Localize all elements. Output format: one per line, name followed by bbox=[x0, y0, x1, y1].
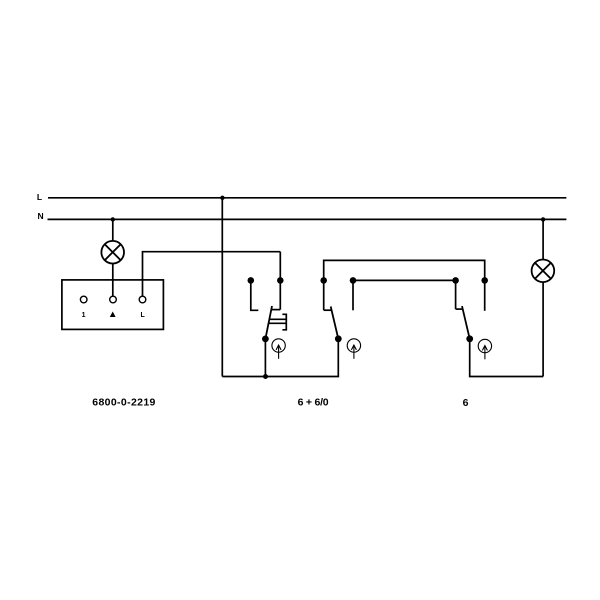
switch S3 (two-way, type 6) blade feed bbox=[455, 280, 457, 309]
indicator glow lamp of S1 bbox=[272, 339, 285, 359]
switch S3 blade bbox=[462, 306, 470, 339]
node S3 right terminal dot bbox=[481, 277, 488, 284]
wire from L junction down to bottom rail bbox=[221, 198, 223, 377]
switch S1 bracket line 2 bbox=[269, 322, 286, 324]
pin label arrow (triangle) bbox=[110, 312, 116, 318]
wire S1 pivot down to bottom rail bbox=[264, 339, 266, 377]
wire from box terminal L up and across to switch S1 terminal bbox=[143, 252, 281, 297]
switch S1 (series/two-way 6/0 mechanism) right feed wire bbox=[279, 252, 281, 310]
svg-text:1: 1 bbox=[82, 312, 86, 319]
svg-text:6 + 6/0: 6 + 6/0 bbox=[298, 397, 329, 409]
switch S1 pushbutton bracket top arm bbox=[282, 314, 286, 330]
node S1 bottom pivot dot bbox=[262, 336, 269, 343]
lamp E2 bbox=[532, 260, 555, 283]
timer/control unit box 6800-0-2219 bbox=[62, 280, 163, 330]
node S3 bottom pivot dot bbox=[466, 335, 473, 342]
switch S1 connector blade-to-terminal bbox=[272, 309, 281, 311]
node S3 left terminal dot bbox=[452, 277, 459, 284]
node S1 right terminal dot bbox=[277, 277, 284, 284]
svg-text:6: 6 bbox=[463, 397, 469, 409]
wire L line bbox=[48, 197, 566, 199]
indicator glow lamp of S2 bbox=[347, 339, 360, 359]
wire middle link S2 terminal to S3 blade bbox=[353, 279, 456, 281]
wire S3 pivot down and right to lamp E2 bbox=[470, 339, 543, 377]
svg-text:6800-0-2219: 6800-0-2219 bbox=[92, 397, 155, 409]
indicator glow lamp of S3 bbox=[478, 339, 491, 359]
svg-text:L: L bbox=[37, 192, 42, 202]
wire lamp E2 vertical from N to bottom rail bbox=[542, 219, 544, 376]
node S2 bottom pivot dot bbox=[335, 335, 342, 342]
wire bottom rail left circuit bbox=[222, 339, 338, 377]
switch S2 blade bbox=[331, 307, 339, 339]
terminal arrow of box bbox=[110, 296, 117, 303]
wire top link S2 blade to S3 terminal bbox=[324, 260, 485, 280]
switch S1 bracket line 1 bbox=[270, 318, 286, 320]
svg-text:L: L bbox=[140, 312, 145, 319]
lamp E1 bbox=[101, 241, 124, 264]
node junction dot on N line right bbox=[541, 217, 545, 221]
wire from N junction down to lamp E1 and terminal (arrow) of timer box bbox=[112, 219, 114, 296]
junction dot on bottom rail bbox=[263, 374, 268, 379]
switch S1 blade bbox=[265, 306, 272, 339]
switch S3 connector bbox=[456, 308, 464, 310]
svg-text:N: N bbox=[38, 211, 44, 221]
switch S2 connector bbox=[324, 309, 332, 311]
switch S3 open contact stub bbox=[484, 280, 486, 310]
node S2 right terminal dot bbox=[350, 277, 357, 284]
terminal L of box bbox=[139, 296, 146, 303]
switch S2 open contact stub bbox=[352, 280, 354, 310]
node S1 left terminal dot bbox=[248, 277, 255, 284]
terminal 1 of box bbox=[80, 296, 87, 303]
switch S1 left terminal hook (fixed contact) bbox=[251, 282, 258, 310]
node S2 left terminal dot bbox=[320, 277, 327, 284]
node junction dot on L line bbox=[220, 196, 224, 200]
node junction dot on N line left bbox=[111, 217, 115, 221]
switch S2 (two-way, part of 6+6/0) blade feed bbox=[323, 280, 325, 310]
wire N line bbox=[48, 218, 567, 220]
